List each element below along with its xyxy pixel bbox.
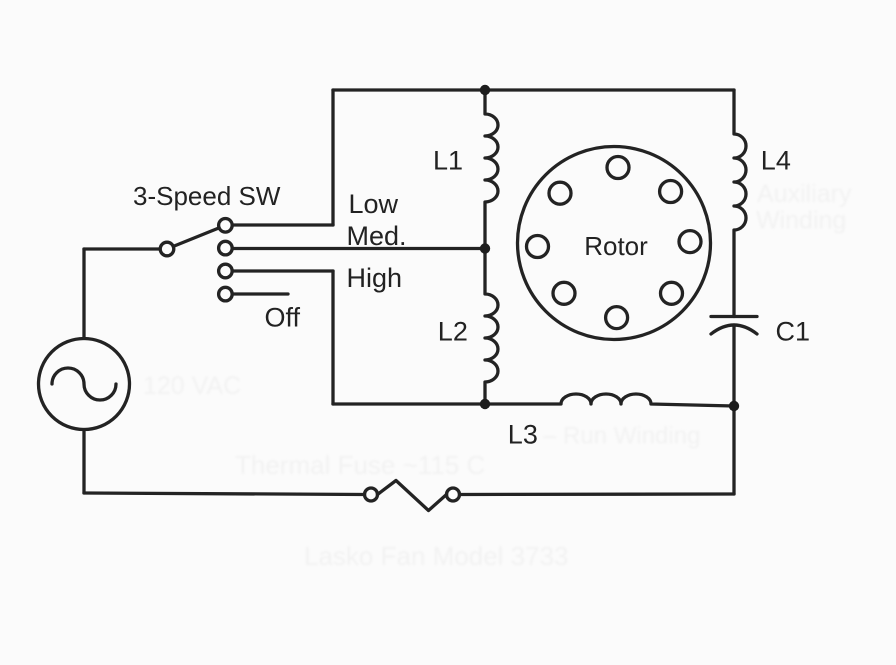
svg-text:L3: L3 bbox=[508, 420, 538, 450]
rotor bar bottom bbox=[606, 307, 628, 329]
wire High contact to box bbox=[232, 269, 333, 272]
svg-text:L1: L1 bbox=[433, 146, 463, 176]
wire Low contact to box bbox=[232, 223, 333, 226]
rotor bar left bbox=[527, 236, 549, 258]
node A junction top bbox=[480, 85, 490, 95]
switch contact Low bbox=[219, 219, 233, 233]
svg-text:Med.: Med. bbox=[347, 221, 407, 251]
rotor bar right bbox=[679, 231, 701, 253]
capacitor C1 bottom plate bbox=[711, 325, 757, 334]
inductor L2 bbox=[485, 249, 498, 405]
wire bottom box horizontal bbox=[333, 402, 485, 405]
node C junction bottom bbox=[480, 399, 490, 409]
svg-text:L4: L4 bbox=[761, 146, 791, 176]
svg-text:Lasko Fan Model 3733: Lasko Fan Model 3733 bbox=[304, 541, 569, 571]
wire left box vertical (Low branch) bbox=[331, 90, 334, 225]
inductor L1 bbox=[485, 90, 498, 249]
AC source V1 bbox=[39, 339, 130, 430]
wire C1 to node D bbox=[732, 325, 735, 406]
switch arm bbox=[173, 228, 219, 247]
wire to switch common bbox=[84, 247, 160, 250]
svg-text:– Run Winding: – Run Winding bbox=[543, 423, 700, 450]
svg-text:Winding: Winding bbox=[756, 207, 846, 235]
svg-text:High: High bbox=[347, 263, 403, 293]
rotor bar bottom-right bbox=[661, 282, 683, 304]
wire Off stub bbox=[232, 292, 288, 295]
rotor bar top bbox=[607, 157, 629, 179]
svg-text:Thermal Fuse ~115 C: Thermal Fuse ~115 C bbox=[235, 450, 485, 480]
rotor outer circle bbox=[518, 147, 711, 340]
inductor L4 bbox=[734, 90, 746, 317]
wire Med contact to node B bbox=[232, 247, 485, 250]
inductor L3 bbox=[485, 394, 734, 406]
svg-text:3-Speed SW: 3-Speed SW bbox=[133, 181, 281, 211]
wire bottom right bbox=[460, 492, 735, 496]
wire top horizontal bbox=[333, 88, 734, 91]
svg-text:120 VAC: 120 VAC bbox=[143, 372, 241, 400]
capacitor C1 top plate bbox=[711, 315, 757, 318]
rotor bar top-right bbox=[660, 181, 682, 203]
thermal fuse F1 bbox=[447, 488, 460, 501]
switch contact Med bbox=[219, 241, 233, 255]
rotor bar bottom-left bbox=[553, 282, 575, 304]
wire bottom left bbox=[84, 493, 365, 495]
switch contact Off bbox=[219, 287, 233, 301]
switch contact High bbox=[219, 264, 233, 278]
svg-text:L2: L2 bbox=[438, 317, 468, 347]
svg-text:Auxiliary: Auxiliary bbox=[757, 180, 852, 208]
node B junction mid bbox=[480, 243, 490, 253]
svg-text:Off: Off bbox=[265, 303, 301, 333]
node D junction right bbox=[729, 401, 739, 411]
wire left vertical lower bbox=[82, 430, 85, 494]
svg-text:C1: C1 bbox=[776, 317, 811, 347]
wire left vertical upper bbox=[82, 249, 85, 339]
AC source sine wave bbox=[52, 368, 116, 400]
switch SW common pole bbox=[160, 242, 174, 256]
svg-text:Rotor: Rotor bbox=[584, 231, 648, 261]
wire High vertical bbox=[331, 271, 334, 404]
wire right vertical lower bbox=[732, 406, 735, 494]
svg-text:Low: Low bbox=[349, 189, 399, 219]
rotor bar top-left bbox=[549, 182, 571, 204]
